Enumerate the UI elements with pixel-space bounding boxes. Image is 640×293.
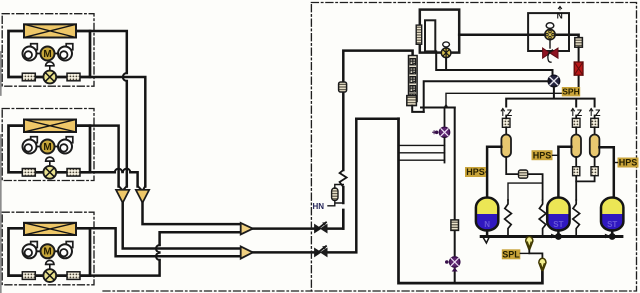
wire HPS1 stub — [486, 171, 487, 173]
filter F1a — [22, 73, 35, 81]
svg-text:M: M — [43, 247, 51, 258]
filter F3b — [67, 272, 80, 280]
coil block Z2 — [572, 118, 580, 127]
svg-text:N: N — [557, 11, 563, 21]
wire hop unit1-top over unit1-bottom — [123, 73, 127, 81]
wire compressor discharge — [459, 35, 578, 38]
wire accumulator drops — [487, 231, 612, 237]
label HPS3 — [618, 158, 639, 168]
flex hose 3 — [573, 200, 580, 237]
svg-text:ST: ST — [553, 220, 563, 229]
wire capsule2 bottom — [575, 157, 577, 200]
gas-liquid separator body — [409, 56, 418, 102]
heat exchanger HX3 — [24, 223, 76, 235]
HN pot — [332, 188, 338, 201]
separator bottom fitting — [407, 96, 417, 106]
circulation pump P — [548, 75, 560, 87]
svg-text:N: N — [484, 220, 490, 229]
motor M2 — [41, 140, 55, 154]
wire pump links unit 1 — [37, 53, 59, 55]
svg-text:HPS: HPS — [533, 150, 552, 160]
wire HPS3 stub — [614, 162, 618, 164]
condenser coil bar — [416, 25, 422, 44]
expansion valve red — [543, 48, 558, 62]
wire supply upper to plant — [253, 210, 343, 229]
svg-text:ST: ST — [607, 220, 617, 229]
wire drain rail — [481, 235, 622, 238]
shutoff valve lower supply — [315, 246, 327, 257]
compressor inner block — [425, 20, 435, 51]
solenoid symbol Z3 — [590, 109, 593, 116]
coil block Z1 — [502, 118, 510, 127]
funnel drain 2 — [539, 258, 546, 272]
N bypass frame — [528, 13, 569, 51]
wire unit1 top exit — [90, 31, 127, 187]
wire hops unit2-bottom over verticals — [115, 169, 131, 173]
accumulator 3 — [601, 198, 623, 231]
plant dashed enclosure — [311, 3, 636, 292]
label SPL — [502, 249, 521, 259]
filter F1b — [67, 73, 80, 81]
wire SPH sense — [446, 88, 579, 108]
wire unit2 top exit — [90, 126, 119, 187]
svg-text:SPL: SPL — [502, 250, 520, 260]
solenoid symbol Z2 — [571, 109, 574, 116]
node dot acc2 — [551, 233, 562, 240]
svg-text:HPS: HPS — [466, 167, 485, 177]
wire Z1 — [505, 116, 507, 135]
svg-text:Z: Z — [577, 108, 583, 118]
wire T2 output to upper supply — [143, 203, 241, 224]
wire unit1 bottom exit — [90, 77, 145, 187]
wire funnel1 out — [529, 250, 542, 262]
collector funnel T2 — [136, 186, 149, 203]
label HPS1 — [465, 167, 486, 177]
pump 1.1 — [23, 44, 38, 61]
inline filter suction — [339, 82, 347, 92]
wire unit3 top exit — [90, 228, 241, 256]
injector capsule Z3 — [590, 135, 600, 158]
svg-text:M: M — [43, 49, 51, 60]
wire hop return vertical between supply lines — [156, 245, 160, 260]
wire condensate to pump — [436, 51, 552, 75]
pump 1.2 — [58, 44, 73, 61]
left edge artifact — [0, 52, 2, 293]
motor valve condensate — [441, 42, 451, 58]
wire Z3 — [594, 116, 596, 135]
wire SPL stub — [520, 252, 529, 254]
wire loop unit 1 — [9, 31, 91, 77]
check valve c3 — [591, 167, 598, 176]
stray dashed bottom segment — [103, 290, 311, 292]
wire loop unit 2 — [9, 126, 91, 173]
flex hose suction — [340, 170, 347, 187]
wire receiver downcomer — [399, 119, 543, 283]
motor valve V2 — [43, 157, 56, 179]
wire Z2 — [575, 116, 577, 135]
filter F2a — [22, 169, 35, 177]
charge valve purple — [433, 108, 450, 163]
drain valve purple — [445, 257, 460, 272]
sight glass red — [574, 62, 583, 75]
wire hose1 header — [508, 183, 543, 200]
engine unit 3 dashed enclosure — [2, 212, 94, 285]
injector capsule Z2 — [571, 135, 581, 158]
wire separator drain — [412, 106, 424, 112]
label SPH — [562, 87, 580, 97]
arrow junction — [443, 104, 449, 109]
motor valve N — [545, 23, 555, 48]
supply arrow lower — [241, 246, 253, 258]
wire capsule3 to accumulator3 — [599, 147, 613, 196]
motor M3 — [41, 244, 55, 258]
wire pump discharge to solenoid header — [506, 87, 594, 107]
wire pump links unit 2 — [37, 146, 59, 148]
wire capsule1 bottom — [506, 157, 542, 200]
accumulator 2 — [547, 198, 569, 231]
wire capsule3 bottom — [576, 157, 594, 181]
wire discharge drop — [578, 47, 580, 88]
wire suction riser — [343, 51, 412, 229]
separator label glyphs — [410, 59, 416, 101]
svg-text:HN: HN — [313, 202, 325, 211]
pump 2.1 — [23, 137, 38, 154]
solenoid symbol Z1 — [501, 109, 504, 116]
engine unit 2 dashed enclosure — [2, 109, 94, 181]
label HPS2 — [532, 150, 553, 160]
svg-text:Z: Z — [507, 108, 513, 118]
flex hose 1 — [505, 200, 512, 237]
svg-text:HPS: HPS — [619, 158, 638, 168]
funnel drain 1 — [528, 237, 530, 242]
wire lattice taps — [399, 145, 445, 160]
filter F3a — [22, 272, 35, 280]
motor M1 — [41, 47, 55, 61]
pump 3.1 — [23, 242, 38, 259]
accumulator 1 — [476, 198, 498, 231]
wire capsule1 to accumulator1 — [487, 147, 501, 197]
wire equalize riser — [454, 108, 456, 284]
pump 2.2 — [58, 137, 73, 154]
wire funnel2 out — [541, 272, 543, 283]
collector funnel T1 — [116, 186, 129, 203]
heat exchanger HX1 — [24, 24, 76, 37]
wire unit3 bottom exit — [90, 232, 241, 275]
pump 3.2 — [58, 242, 73, 259]
motor valve V1 — [43, 62, 56, 84]
motor valve V3 — [43, 260, 56, 282]
injector capsule Z1 — [501, 135, 511, 158]
node dot acc3 — [605, 233, 616, 240]
wire pump suction to separator drain — [424, 81, 548, 112]
wire supply lower to plant — [253, 119, 356, 253]
shutoff valve upper supply — [315, 222, 327, 233]
svg-text:Z: Z — [595, 108, 601, 118]
wire HPS2 stub — [553, 154, 559, 156]
drier filter — [575, 38, 583, 48]
coil block Z3 — [591, 118, 599, 127]
wire HN pot links — [328, 185, 343, 206]
wire T1 output to lower supply — [123, 203, 241, 249]
filter F2b — [67, 169, 80, 177]
svg-text:SPH: SPH — [562, 87, 579, 97]
condenser unit frame — [420, 10, 459, 53]
wire hot-gas header — [421, 107, 455, 109]
check valve c2 — [573, 167, 580, 176]
wire unit2 bottom exit — [90, 172, 138, 186]
wire pump links unit 3 — [37, 250, 59, 252]
inline filter equalize — [451, 220, 459, 231]
metering orifice — [519, 170, 528, 178]
svg-text:M: M — [43, 142, 51, 153]
engine unit 1 dashed enclosure — [2, 14, 94, 87]
wire capsule2 to accumulator2 — [558, 147, 571, 196]
arrow acc1 drain — [483, 238, 489, 244]
wire loop unit 3 — [9, 228, 91, 275]
flex hose 2 — [539, 200, 546, 237]
heat exchanger HX2 — [24, 120, 76, 133]
supply arrow upper — [241, 223, 253, 235]
wire header link — [356, 117, 398, 120]
